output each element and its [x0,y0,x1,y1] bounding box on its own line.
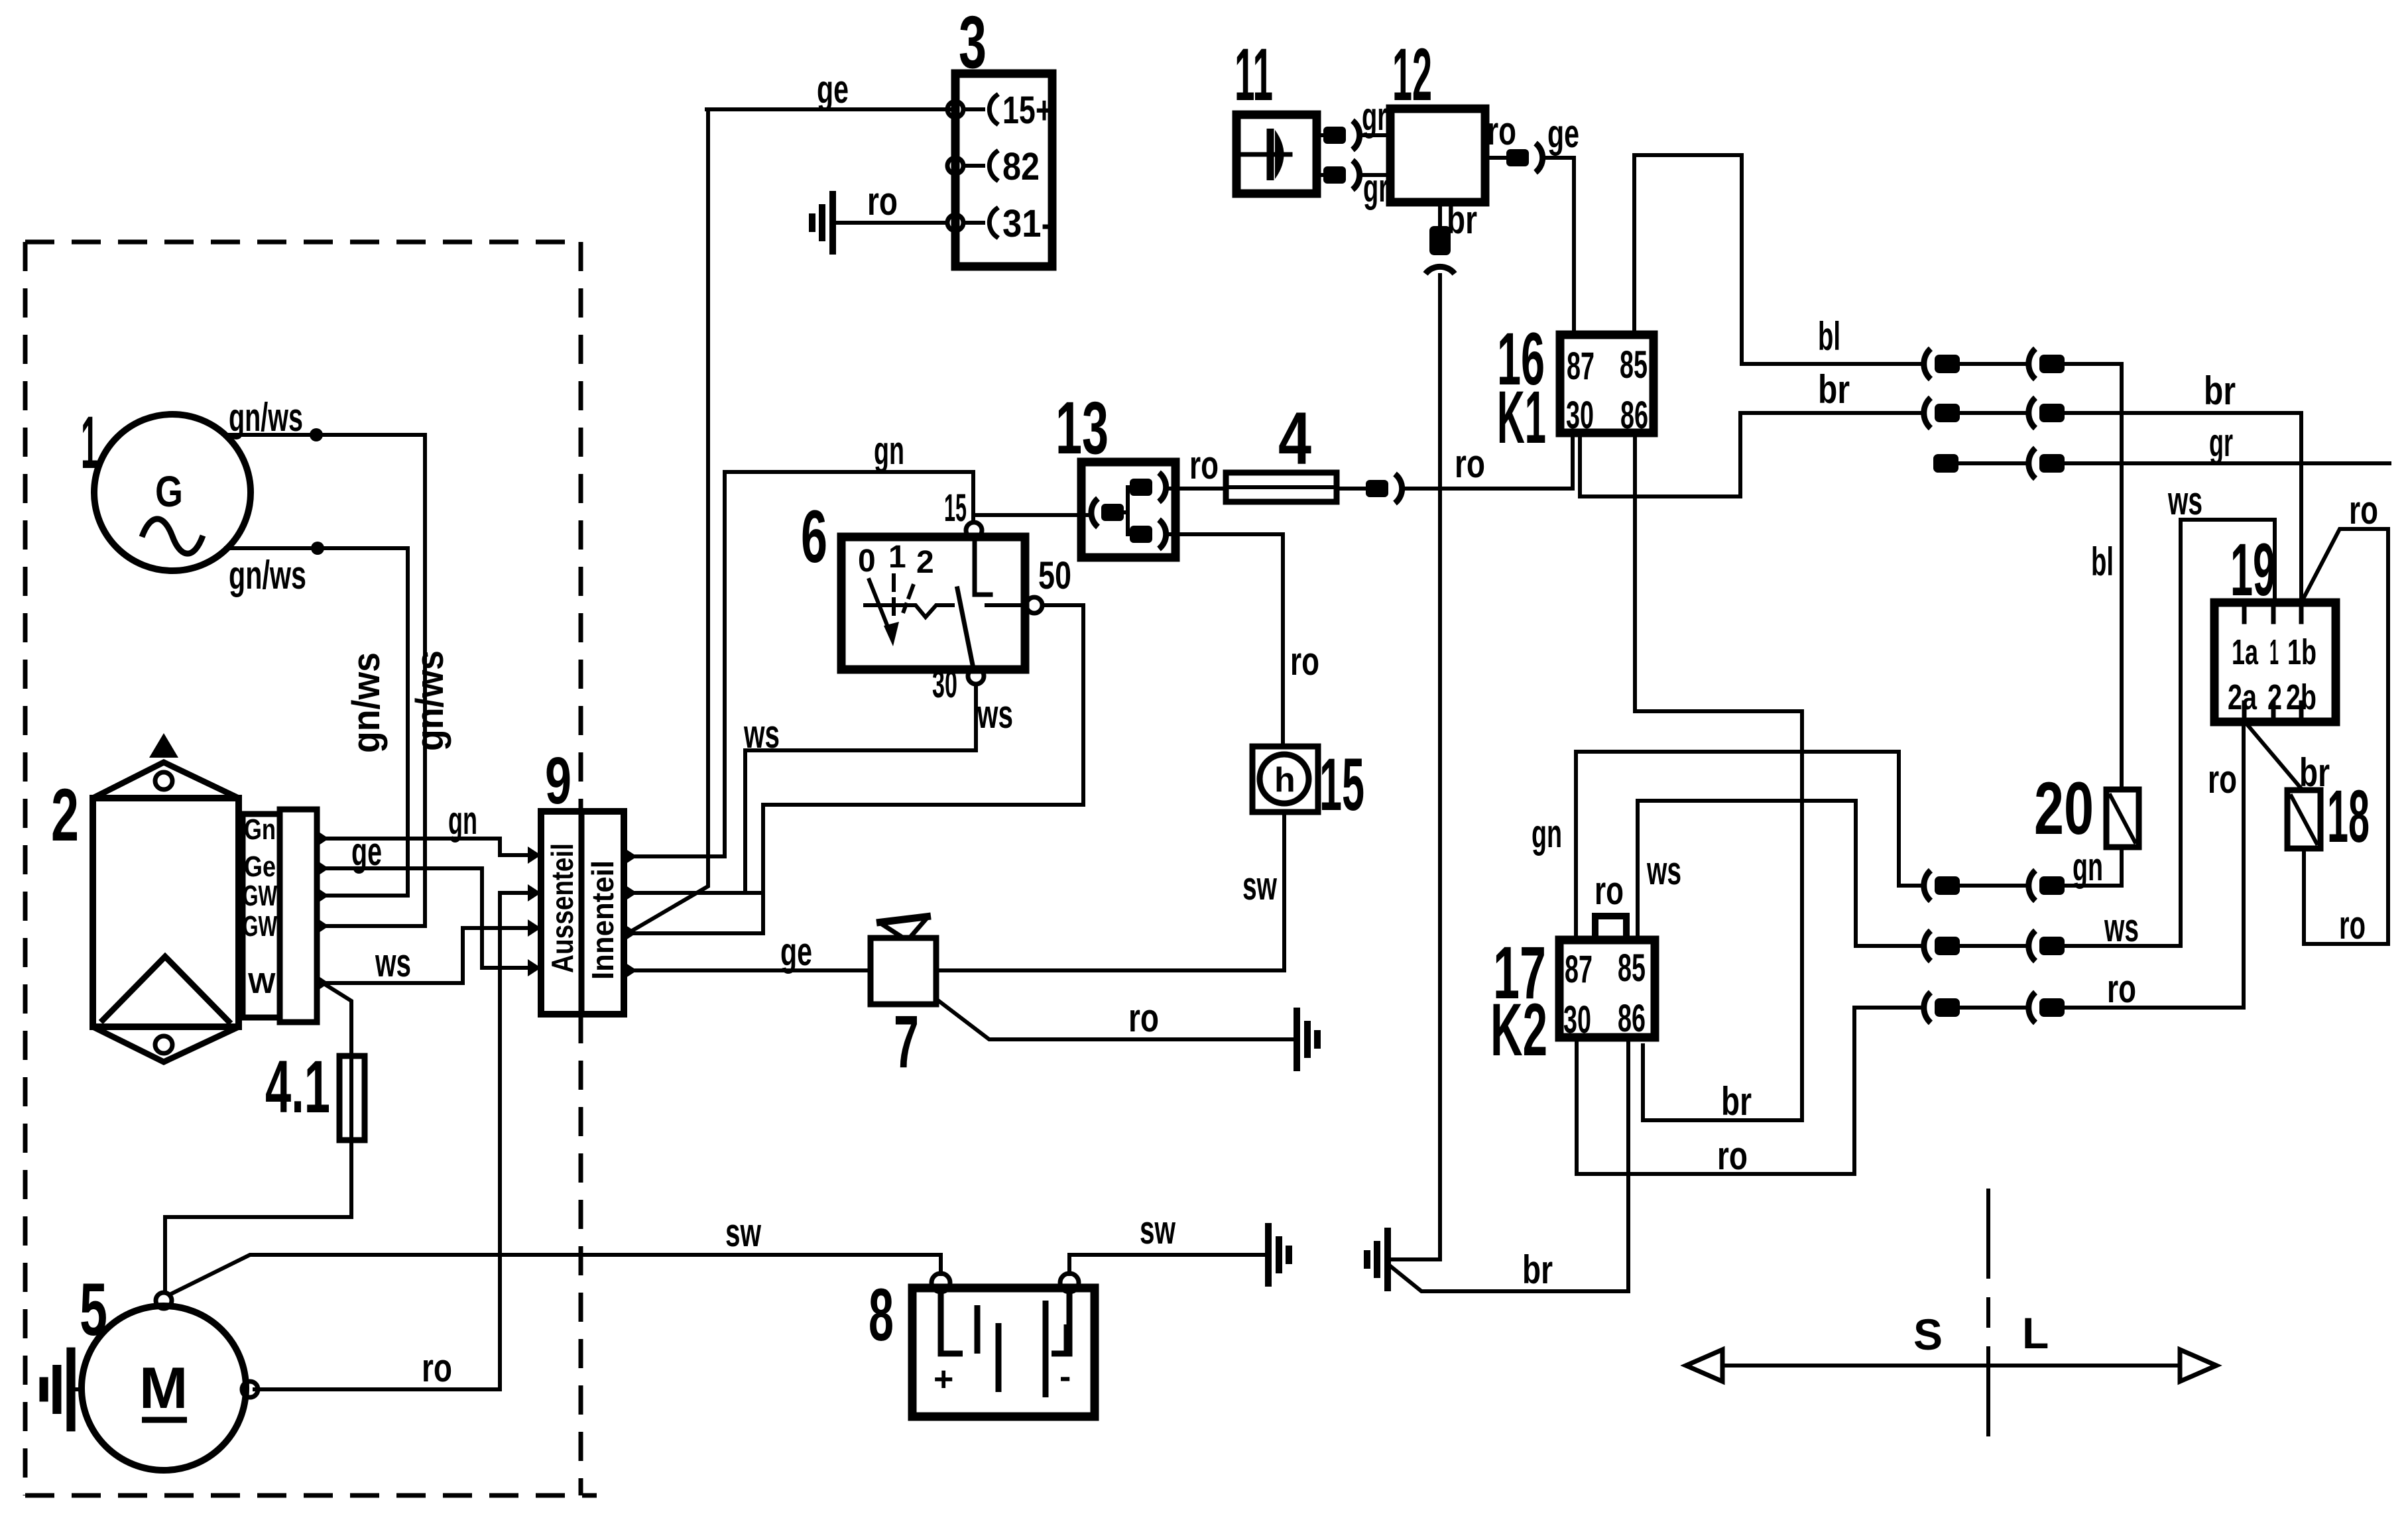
battery 8 [869,1273,1095,1417]
wire br from K1 pin 86 to K2 pin 86 [1635,433,1802,1124]
svg-text:br: br [1721,1079,1752,1124]
svg-text:1b: 1b [2287,632,2317,672]
lamp 18 [2287,750,2370,858]
svg-text:50: 50 [1038,554,1071,597]
wire ro/ge from 12 to relay K1 pin 87 [1485,109,1579,335]
svg-text:1: 1 [81,401,98,484]
svg-text:5: 5 [80,1268,107,1351]
svg-text:br: br [1447,198,1477,242]
wire gr with connectors [1933,420,2389,479]
starter relay 13 [1055,386,1175,557]
svg-text:1a: 1a [2232,632,2259,672]
svg-text:gr: gr [1363,166,1388,210]
svg-text:2: 2 [916,545,934,580]
svg-text:bl: bl [2091,540,2114,584]
svg-text:ws: ws [2167,479,2202,523]
wire ro loop from lamp 18 to 19 pin 1b [2302,488,2388,947]
wire from fuse 4.1 to motor top terminal [165,1140,351,1293]
svg-text:85: 85 [1618,947,1646,990]
connectors gr between 11 and 12 [1317,94,1390,210]
svg-text:gn: gn [448,798,477,843]
flasher sender 11 [1234,33,1317,194]
ignition switch 6 [801,487,1071,706]
wire W (ws) from 2 to 9 pin L3 [325,928,530,985]
svg-text:86: 86 [1620,394,1648,437]
svg-text:ro: ro [2349,488,2378,532]
wire ro from K2 pin 30 to control unit 19 pin 2a [1577,722,2244,1178]
svg-text:ws: ws [2104,905,2139,950]
svg-text:8: 8 [869,1273,894,1356]
svg-text:31-: 31- [1002,202,1053,245]
ro jumper on K2 between 87 and 85 [1595,868,1626,940]
wire Ge from 2 to 9 pin L4 [325,829,530,968]
lamp 20 [2034,767,2139,850]
wire 9 R1 to gn riser [635,472,725,856]
wire ws from K2 pin 85 to control unit 19 pin 1 [1638,479,2275,961]
svg-text:15: 15 [1319,743,1364,826]
generator 1 [81,401,251,571]
svg-text:K1: K1 [1497,376,1546,459]
svg-text:gn: gn [874,428,904,473]
wire ws from 6 pin 30 down [743,684,1013,893]
wire Gn from 2 to 9 pin L1 [325,798,530,855]
svg-text:ro: ro [1487,109,1516,153]
svg-text:ro: ro [1595,868,1624,913]
svg-text:87: 87 [1565,948,1593,991]
svg-text:ge: ge [780,929,812,974]
fuse 4 [1226,397,1337,502]
wire from 6 pin 50 down to 9 R3 [763,605,1083,933]
svg-text:gr: gr [1362,94,1387,139]
svg-text:13: 13 [1055,386,1109,469]
svg-text:ws: ws [375,941,411,985]
svg-text:18: 18 [2327,775,2370,858]
svg-text:bl: bl [1818,314,1840,359]
svg-text:h: h [1274,761,1295,799]
svg-text:gn/ws: gn/ws [345,652,388,753]
svg-text:-: - [1059,1358,1071,1396]
wire sw from 15 down to horn output [936,812,1284,970]
wire 9 R2 to ws riser junction [635,891,763,895]
svg-text:Innenteil: Innenteil [585,860,620,980]
svg-text:ws: ws [977,692,1013,736]
svg-text:ro: ro [1189,443,1219,487]
svg-text:30: 30 [1566,394,1594,437]
dashed enclosure border (vehicle boundary) [25,242,597,1495]
wire ro from horn to ground [936,996,1317,1071]
svg-text:30: 30 [1563,998,1591,1041]
svg-text:2b: 2b [2286,677,2317,717]
wire bl from K1 pin 85 to lamp 20 [1634,155,2122,789]
svg-text:2: 2 [51,774,79,856]
ground at motor [44,1348,82,1432]
svg-text:2a: 2a [2228,677,2257,717]
svg-text:gn: gn [2073,844,2103,889]
svg-text:30: 30 [932,663,957,706]
wire br from K2 pin 86 to ground [1367,1037,1628,1292]
svg-text:ro: ro [2339,903,2366,947]
connector block 9 Aussenteil/Innenteil [528,744,637,1014]
svg-text:Gn: Gn [244,813,276,846]
svg-text:gr: gr [2209,420,2233,465]
svg-text:7: 7 [894,1000,919,1083]
rectifier/regulator 2 [51,733,329,1062]
wire diagonal from 19 pin 2a to lamp 18 [2245,722,2303,790]
wire ro from motor to 9 area riser [255,893,541,1390]
svg-text:gn/ws: gn/ws [229,553,306,597]
motor 5 [80,1268,258,1470]
svg-text:+: + [933,1360,953,1399]
svg-text:ge: ge [817,67,849,111]
svg-text:12: 12 [1392,33,1432,116]
svg-text:1: 1 [888,540,906,575]
svg-text:M: M [139,1355,188,1421]
wire gn/ws generator top [226,395,452,926]
svg-text:br: br [2204,369,2236,413]
wire gn from 9 riser to ignition switch 6 pin 15 [725,428,973,522]
svg-text:ws: ws [1646,848,1681,893]
fuse 4.1 [265,983,365,1140]
wire br from K1 pin 30 to control unit 19 pin 1b [1580,367,2301,603]
svg-text:sw: sw [725,1210,761,1255]
svg-text:15+: 15+ [1002,89,1053,132]
wire ro from 13 to fuse 4 [1167,443,1226,489]
wire ge from riser to component 3 [707,67,955,111]
svg-text:sw: sw [1242,864,1277,908]
svg-text:gn: gn [1532,811,1562,856]
svg-text:ge: ge [351,829,382,874]
wire gn/ws generator bottom [226,542,408,896]
hour meter 15 [1252,743,1364,826]
svg-text:GW: GW [243,880,277,912]
wire ge diagonal from 9 R3 to component 3 riser [630,109,708,932]
svg-text:86: 86 [1618,997,1646,1040]
control unit 19 [2214,528,2336,722]
double arrow S L legend [1686,1191,2216,1447]
svg-text:ro: ro [422,1346,452,1390]
ground at component 3 with wire ro [812,179,947,255]
svg-text:ro: ro [1290,639,1319,683]
wire sw from motor terminal to battery [170,1210,941,1295]
svg-text:S: S [1913,1310,1943,1359]
svg-text:br: br [1818,367,1850,412]
svg-text:20: 20 [2034,767,2094,850]
svg-text:L: L [2022,1309,2049,1358]
svg-text:4.1: 4.1 [265,1045,330,1128]
wire ro from fuse 4 to relay K1 pin 30 [1337,433,1573,503]
svg-text:br: br [1522,1248,1553,1292]
svg-text:15: 15 [944,487,967,530]
svg-text:G: G [155,467,183,516]
svg-text:Aussenteil: Aussenteil [545,843,579,973]
wire gn from K2 pin 87 to lamp 20 [1532,752,2122,940]
svg-text:K2: K2 [1490,988,1547,1071]
svg-text:6: 6 [801,495,827,578]
wire ge from 9 R4 to horn 7 [635,929,871,974]
wire ro from 13 lower contact to hour meter 15 [1167,534,1319,746]
relay 17 K2 [1490,931,1655,1071]
svg-text:1: 1 [2269,632,2279,672]
wire from 6 pin 15 to starter relay 13 [973,513,1087,517]
svg-text:11: 11 [1234,33,1273,116]
wire br from 12 down to ground [1425,198,1477,1259]
svg-text:sw: sw [1140,1208,1175,1252]
flasher relay 12 [1390,33,1485,202]
svg-text:85: 85 [1620,343,1648,386]
svg-text:W: W [248,967,276,1000]
relay 16 K1 [1497,318,1654,459]
wire 9 R3 [635,931,763,935]
svg-text:4: 4 [1278,397,1311,480]
svg-text:0: 0 [858,544,876,579]
svg-text:9: 9 [545,744,572,818]
svg-text:Ge: Ge [244,850,276,883]
svg-text:82: 82 [1002,145,1040,188]
svg-text:ro: ro [2208,757,2237,801]
svg-text:gn/ws: gn/ws [229,395,303,439]
svg-text:ro: ro [1128,996,1159,1040]
svg-text:ro: ro [1455,441,1485,486]
svg-text:87: 87 [1567,345,1595,388]
svg-text:ge: ge [1547,111,1579,156]
wire sw from battery to ground [1069,1208,1289,1287]
svg-text:gn/ws: gn/ws [408,650,452,751]
svg-text:ro: ro [2107,966,2136,1011]
svg-text:ro: ro [1717,1134,1748,1178]
svg-text:GW: GW [243,910,277,943]
svg-text:ro: ro [867,179,898,223]
horn 7 [871,916,936,1083]
ignition coil unit 3 [947,1,1053,266]
svg-text:ws: ws [743,712,780,756]
svg-text:br: br [2299,750,2330,795]
svg-text:2: 2 [2267,677,2282,717]
